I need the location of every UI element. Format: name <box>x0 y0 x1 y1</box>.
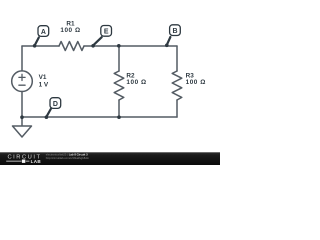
wire top-right segment <box>84 45 177 47</box>
node E label <box>101 26 112 37</box>
svg-text:100 Ω: 100 Ω <box>60 27 80 34</box>
wire left vertical bottom <box>21 92 23 118</box>
wire bottom segment <box>22 116 177 118</box>
junction R2 top <box>117 44 121 48</box>
node B label <box>170 25 181 36</box>
svg-text:V1: V1 <box>39 74 47 81</box>
footer logo underline <box>6 160 21 163</box>
svg-text:http://circuitlab.com/c/43kafh: http://circuitlab.com/c/43kafhgb8dm <box>46 156 90 160</box>
node D junction dot <box>45 115 49 119</box>
wire right vertical top <box>176 46 178 71</box>
node A leader <box>35 38 39 46</box>
wire right vertical bottom <box>176 100 178 117</box>
resistor R1 <box>59 42 84 51</box>
node A label <box>38 26 49 37</box>
ground <box>13 117 32 137</box>
resistor R3 <box>172 71 182 100</box>
footer logo square <box>22 160 25 163</box>
node D leader <box>46 109 50 117</box>
svg-text:100 Ω: 100 Ω <box>186 79 206 86</box>
svg-text:LAB: LAB <box>31 159 42 164</box>
svg-text:B: B <box>172 28 177 35</box>
node B junction dot <box>165 44 169 48</box>
node A junction dot <box>33 44 37 48</box>
svg-text:E: E <box>104 29 109 36</box>
junction ground/V1 <box>20 115 24 119</box>
wire left vertical top <box>21 46 23 71</box>
svg-text:D: D <box>53 101 58 108</box>
svg-text:A: A <box>41 29 46 36</box>
node E leader <box>93 37 102 45</box>
node B leader <box>167 37 171 45</box>
svg-text:1 V: 1 V <box>39 82 49 89</box>
voltage source V1 <box>12 71 33 92</box>
svg-text:100 Ω: 100 Ω <box>126 79 146 86</box>
node D label <box>50 98 61 109</box>
resistor R2 <box>114 71 124 100</box>
wire R2 top lead <box>118 46 120 71</box>
wire R2 bottom lead <box>118 100 120 117</box>
wire top-left segment <box>22 45 59 47</box>
node E junction dot <box>91 44 95 48</box>
junction R2 bottom <box>117 115 121 119</box>
